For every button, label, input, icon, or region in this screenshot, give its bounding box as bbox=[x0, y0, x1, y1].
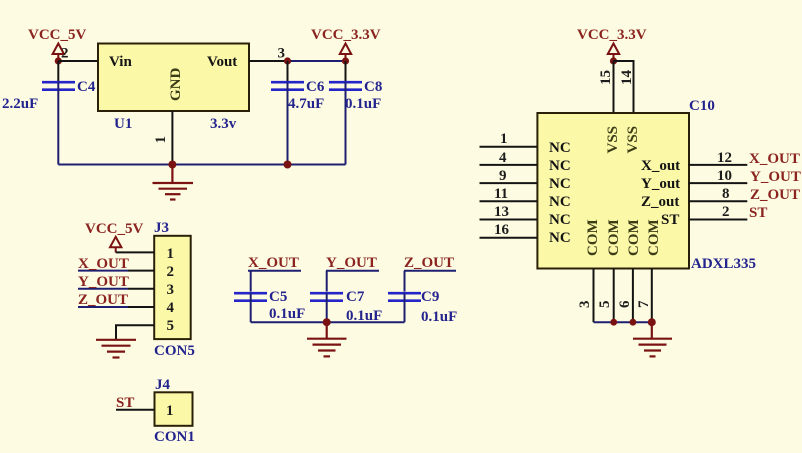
junction node VCC_3.3V / C8 bbox=[342, 57, 349, 64]
svg-text:C10: C10 bbox=[689, 98, 715, 114]
svg-text:VCC_5V: VCC_5V bbox=[85, 221, 143, 237]
svg-text:C8: C8 bbox=[364, 79, 382, 95]
svg-text:CON1: CON1 bbox=[154, 429, 195, 445]
wire net X_OUT stub bbox=[248, 271, 301, 292]
wire U1 Vin pin bbox=[58, 60, 98, 62]
junction node cap bus / C7 / ground bbox=[323, 318, 331, 326]
svg-text:10: 10 bbox=[717, 168, 732, 184]
capacitor C4 bbox=[42, 61, 75, 165]
capacitor C9 bbox=[388, 293, 421, 322]
svg-text:Z_OUT: Z_OUT bbox=[750, 187, 800, 203]
svg-text:J3: J3 bbox=[154, 220, 169, 236]
power symbol VCC_5V bbox=[28, 27, 86, 61]
svg-text:4: 4 bbox=[167, 300, 175, 316]
ground symbol under U1 bbox=[153, 165, 194, 200]
wire cap ground bus bbox=[251, 321, 405, 323]
svg-text:15: 15 bbox=[598, 70, 614, 85]
svg-text:1: 1 bbox=[166, 403, 174, 419]
svg-text:Vout: Vout bbox=[207, 54, 237, 70]
svg-text:ADXL335: ADXL335 bbox=[691, 256, 756, 272]
wire pin 6 (COM) bbox=[632, 269, 634, 323]
capacitor C7 bbox=[310, 293, 343, 322]
connector J4 body bbox=[155, 392, 193, 426]
svg-text:2: 2 bbox=[61, 46, 69, 62]
power symbol VCC_5V (J3) bbox=[85, 221, 143, 252]
svg-text:6: 6 bbox=[617, 300, 633, 308]
wire net Y_OUT stub bbox=[326, 271, 379, 292]
svg-text:1: 1 bbox=[167, 246, 175, 262]
svg-text:11: 11 bbox=[494, 186, 508, 202]
junction node COM bus / pin 6 bbox=[630, 319, 637, 326]
wire U1 Vout to VCC_3.3V node bbox=[249, 60, 346, 62]
wire pin 2 (ST) bbox=[689, 219, 748, 221]
svg-text:NC: NC bbox=[549, 194, 571, 210]
svg-text:CON5: CON5 bbox=[154, 343, 195, 359]
capacitor C5 bbox=[234, 293, 267, 322]
svg-text:NC: NC bbox=[549, 230, 571, 246]
capacitor C6 bbox=[271, 61, 304, 165]
svg-text:3: 3 bbox=[577, 301, 593, 309]
svg-text:3.3v: 3.3v bbox=[210, 116, 237, 132]
ground symbol under C7 bbox=[307, 322, 347, 356]
svg-text:5: 5 bbox=[167, 318, 175, 334]
svg-text:ST: ST bbox=[116, 395, 134, 411]
svg-text:9: 9 bbox=[499, 168, 507, 184]
wire ground bus under U1 bbox=[58, 164, 345, 166]
svg-text:X_OUT: X_OUT bbox=[749, 151, 800, 167]
svg-text:COM: COM bbox=[646, 219, 662, 256]
wire J3 pin 2 / net X_OUT bbox=[78, 270, 154, 272]
wire pin 7 (COM) bbox=[651, 269, 653, 323]
IC C10 ADXL335 body bbox=[537, 113, 689, 269]
svg-text:COM: COM bbox=[585, 219, 601, 256]
svg-text:VSS: VSS bbox=[625, 126, 641, 154]
wire J3 pin 1 bbox=[116, 251, 155, 253]
wire pin 5 (COM) bbox=[613, 269, 615, 323]
junction node COM bus / pin 5 bbox=[610, 319, 617, 326]
svg-text:VCC_5V: VCC_5V bbox=[28, 27, 86, 43]
svg-text:2: 2 bbox=[722, 204, 730, 220]
svg-text:7: 7 bbox=[636, 300, 652, 308]
svg-text:U1: U1 bbox=[114, 116, 132, 132]
ground symbol under J3 bbox=[96, 340, 136, 358]
svg-text:NC: NC bbox=[549, 140, 571, 156]
wire pin 16 (NC) bbox=[480, 237, 538, 239]
junction node COM bus / ground bbox=[648, 318, 656, 326]
power symbol VCC_3.3V bbox=[311, 27, 381, 60]
svg-text:0.1uF: 0.1uF bbox=[345, 96, 381, 112]
wire U1 GND pin 1 bbox=[171, 111, 173, 165]
wire pin 10 (Y_out) bbox=[689, 182, 748, 184]
svg-text:2.2uF: 2.2uF bbox=[2, 96, 38, 112]
svg-text:X_OUT: X_OUT bbox=[248, 255, 299, 271]
svg-text:COM: COM bbox=[606, 219, 622, 256]
svg-text:C5: C5 bbox=[269, 289, 287, 305]
op IC U1 body bbox=[98, 44, 249, 112]
wire pin 14 bbox=[614, 61, 634, 113]
svg-text:X_OUT: X_OUT bbox=[78, 256, 129, 272]
svg-text:Z_out: Z_out bbox=[641, 194, 679, 210]
svg-text:1: 1 bbox=[500, 131, 508, 147]
svg-text:14: 14 bbox=[619, 70, 635, 86]
svg-text:3: 3 bbox=[167, 282, 175, 298]
svg-text:2: 2 bbox=[167, 264, 175, 280]
svg-text:C7: C7 bbox=[346, 289, 365, 305]
svg-text:8: 8 bbox=[722, 186, 730, 202]
capacitor C8 bbox=[329, 61, 362, 165]
svg-text:VCC_3.3V: VCC_3.3V bbox=[311, 27, 381, 43]
wire J3 pin 4 / net Z_OUT bbox=[78, 306, 154, 308]
svg-text:0.1uF: 0.1uF bbox=[269, 306, 305, 322]
svg-text:16: 16 bbox=[494, 222, 510, 238]
svg-text:C9: C9 bbox=[421, 289, 439, 305]
svg-text:Z_OUT: Z_OUT bbox=[78, 292, 128, 308]
power symbol VCC_3.3V (ADXL) bbox=[577, 27, 647, 60]
junction node GND bus / C6 bbox=[284, 161, 292, 169]
svg-text:4: 4 bbox=[499, 150, 507, 166]
wire pin 1 (NC) bbox=[480, 146, 538, 148]
svg-text:GND: GND bbox=[168, 68, 184, 102]
svg-text:12: 12 bbox=[717, 150, 732, 166]
svg-text:ST: ST bbox=[661, 212, 679, 228]
junction node VCC_5V / C4 / U1.Vin bbox=[55, 57, 62, 64]
svg-text:Y_OUT: Y_OUT bbox=[326, 255, 377, 271]
wire COM bus bbox=[594, 321, 652, 323]
ground symbol under ADXL335 bbox=[633, 322, 672, 356]
svg-text:4.7uF: 4.7uF bbox=[288, 96, 324, 112]
svg-text:NC: NC bbox=[549, 158, 571, 174]
svg-text:C4: C4 bbox=[77, 79, 96, 95]
svg-text:ST: ST bbox=[749, 205, 767, 221]
wire J3 pin 3 / net Y_OUT bbox=[78, 288, 154, 290]
junction node Vout / C6 bbox=[284, 57, 291, 64]
svg-text:COM: COM bbox=[626, 219, 642, 256]
wire pin 15 bbox=[613, 61, 615, 113]
svg-text:Y_out: Y_out bbox=[641, 176, 680, 192]
svg-text:3: 3 bbox=[278, 46, 286, 62]
wire pin 12 (X_out) bbox=[689, 164, 748, 166]
svg-text:Y_OUT: Y_OUT bbox=[78, 274, 129, 290]
wire pin 4 (NC) bbox=[480, 164, 538, 166]
wire pin 11 (NC) bbox=[480, 200, 538, 202]
svg-text:J4: J4 bbox=[155, 377, 171, 393]
svg-text:Z_OUT: Z_OUT bbox=[404, 255, 454, 271]
wire pin 13 (NC) bbox=[480, 219, 538, 221]
junction node GND bus / U1 pin1 bbox=[168, 161, 176, 169]
svg-text:5: 5 bbox=[597, 301, 613, 309]
svg-text:Vin: Vin bbox=[109, 54, 132, 70]
svg-text:VCC_3.3V: VCC_3.3V bbox=[577, 27, 647, 43]
svg-text:0.1uF: 0.1uF bbox=[421, 309, 457, 325]
wire J3 pin 5 to ground bbox=[116, 325, 154, 339]
svg-text:C6: C6 bbox=[306, 79, 325, 95]
svg-text:1: 1 bbox=[153, 136, 169, 144]
svg-text:X_out: X_out bbox=[641, 158, 680, 174]
wire pin 8 (Z_out) bbox=[689, 200, 748, 202]
svg-text:NC: NC bbox=[549, 212, 571, 228]
svg-text:13: 13 bbox=[494, 204, 509, 220]
junction node VCC_3.3V / pins 15,14 bbox=[610, 57, 617, 64]
svg-text:NC: NC bbox=[549, 176, 571, 192]
wire J4 pin 1 / net ST bbox=[116, 409, 155, 411]
svg-text:VSS: VSS bbox=[605, 126, 621, 154]
svg-text:Y_OUT: Y_OUT bbox=[750, 169, 801, 185]
wire pin 3 (COM) bbox=[593, 269, 595, 323]
wire pin 9 (NC) bbox=[480, 182, 538, 184]
wire net Z_OUT stub bbox=[404, 271, 456, 292]
connector J3 body bbox=[154, 236, 191, 339]
